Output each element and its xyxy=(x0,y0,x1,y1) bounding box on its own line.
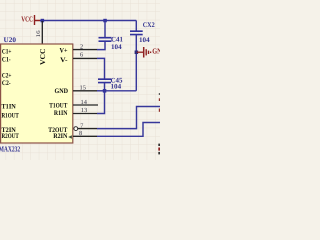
wire CX2 bottom lead down to GND corner xyxy=(135,35,137,91)
wire T2OUT to right edge xyxy=(97,107,160,129)
svg-text:8: 8 xyxy=(79,130,82,137)
wire VCC net top horizontal xyxy=(40,20,136,22)
svg-text:7: 7 xyxy=(80,122,83,129)
svg-text:14: 14 xyxy=(81,99,87,106)
pin 13 (R1IN) xyxy=(73,113,97,115)
svg-text:R2IN: R2IN xyxy=(53,133,67,140)
wire R2IN to right edge xyxy=(97,123,160,137)
pin 14 (T1OUT) open stub xyxy=(73,104,98,106)
svg-text:2: 2 xyxy=(80,43,83,50)
wire GND pin to junction xyxy=(97,90,105,92)
svg-text:16: 16 xyxy=(36,30,42,37)
capacitor CX2 xyxy=(130,31,143,34)
wire R1IN to GND junction vertical xyxy=(97,91,105,114)
pin 6 (V-) xyxy=(73,57,97,59)
svg-text:V-: V- xyxy=(60,57,68,64)
svg-text:6: 6 xyxy=(80,52,83,59)
pin 2 (V+) xyxy=(73,49,97,51)
cut-off marks right edge xyxy=(158,93,160,154)
svg-text:T1OUT: T1OUT xyxy=(49,103,67,110)
svg-text:R1OUT: R1OUT xyxy=(2,113,20,120)
svg-text:VCC: VCC xyxy=(39,49,47,66)
power port VCC xyxy=(21,14,40,25)
svg-text:13: 13 xyxy=(81,107,87,114)
svg-text:C2-: C2- xyxy=(2,80,11,87)
svg-text:VCC: VCC xyxy=(21,14,33,23)
svg-text:104: 104 xyxy=(111,83,122,91)
svg-text:T1IN: T1IN xyxy=(2,103,16,110)
ground symbol xyxy=(137,47,151,58)
svg-text:CX2: CX2 xyxy=(143,21,155,29)
svg-text:R2OUT: R2OUT xyxy=(2,133,20,140)
wire VCC net corner down to CX2 xyxy=(135,21,137,31)
pin 8 (R2IN) with input arrow xyxy=(68,135,97,139)
svg-text:104: 104 xyxy=(139,36,150,44)
svg-text:U20: U20 xyxy=(4,36,17,44)
wire V- to C45 top xyxy=(97,58,105,78)
svg-text:C2+: C2+ xyxy=(2,72,12,79)
svg-text:GND: GND xyxy=(55,88,69,95)
wire C41 top lead xyxy=(104,21,106,38)
capacitor C41 xyxy=(99,38,112,42)
IC U20 MAX232 body xyxy=(1,44,73,143)
pin 7 (T2OUT) with inversion bubble xyxy=(74,127,97,131)
junction GND net at C45 bottom xyxy=(103,89,107,93)
svg-text:C1+: C1+ xyxy=(2,48,12,55)
wire V+ to C41 bottom xyxy=(97,42,105,50)
svg-text:15: 15 xyxy=(80,84,86,91)
svg-text:GND: GND xyxy=(152,47,160,56)
capacitor C45 xyxy=(98,79,111,82)
svg-text:R1IN: R1IN xyxy=(54,110,68,117)
pin 16 of U20 xyxy=(36,21,42,44)
svg-text:MAX232: MAX232 xyxy=(0,144,20,153)
junction VCC wire to C41 top xyxy=(103,19,107,23)
pin 15 (GND) xyxy=(73,90,97,92)
svg-text:V+: V+ xyxy=(60,47,68,54)
junction ground symbol tap xyxy=(135,51,139,55)
junction VCC wire to pin 16 xyxy=(41,19,45,23)
wire GND net horizontal to right column xyxy=(105,90,137,92)
wire C45 bottom lead xyxy=(104,83,106,91)
svg-text:104: 104 xyxy=(111,43,122,51)
svg-text:C1-: C1- xyxy=(2,56,11,63)
